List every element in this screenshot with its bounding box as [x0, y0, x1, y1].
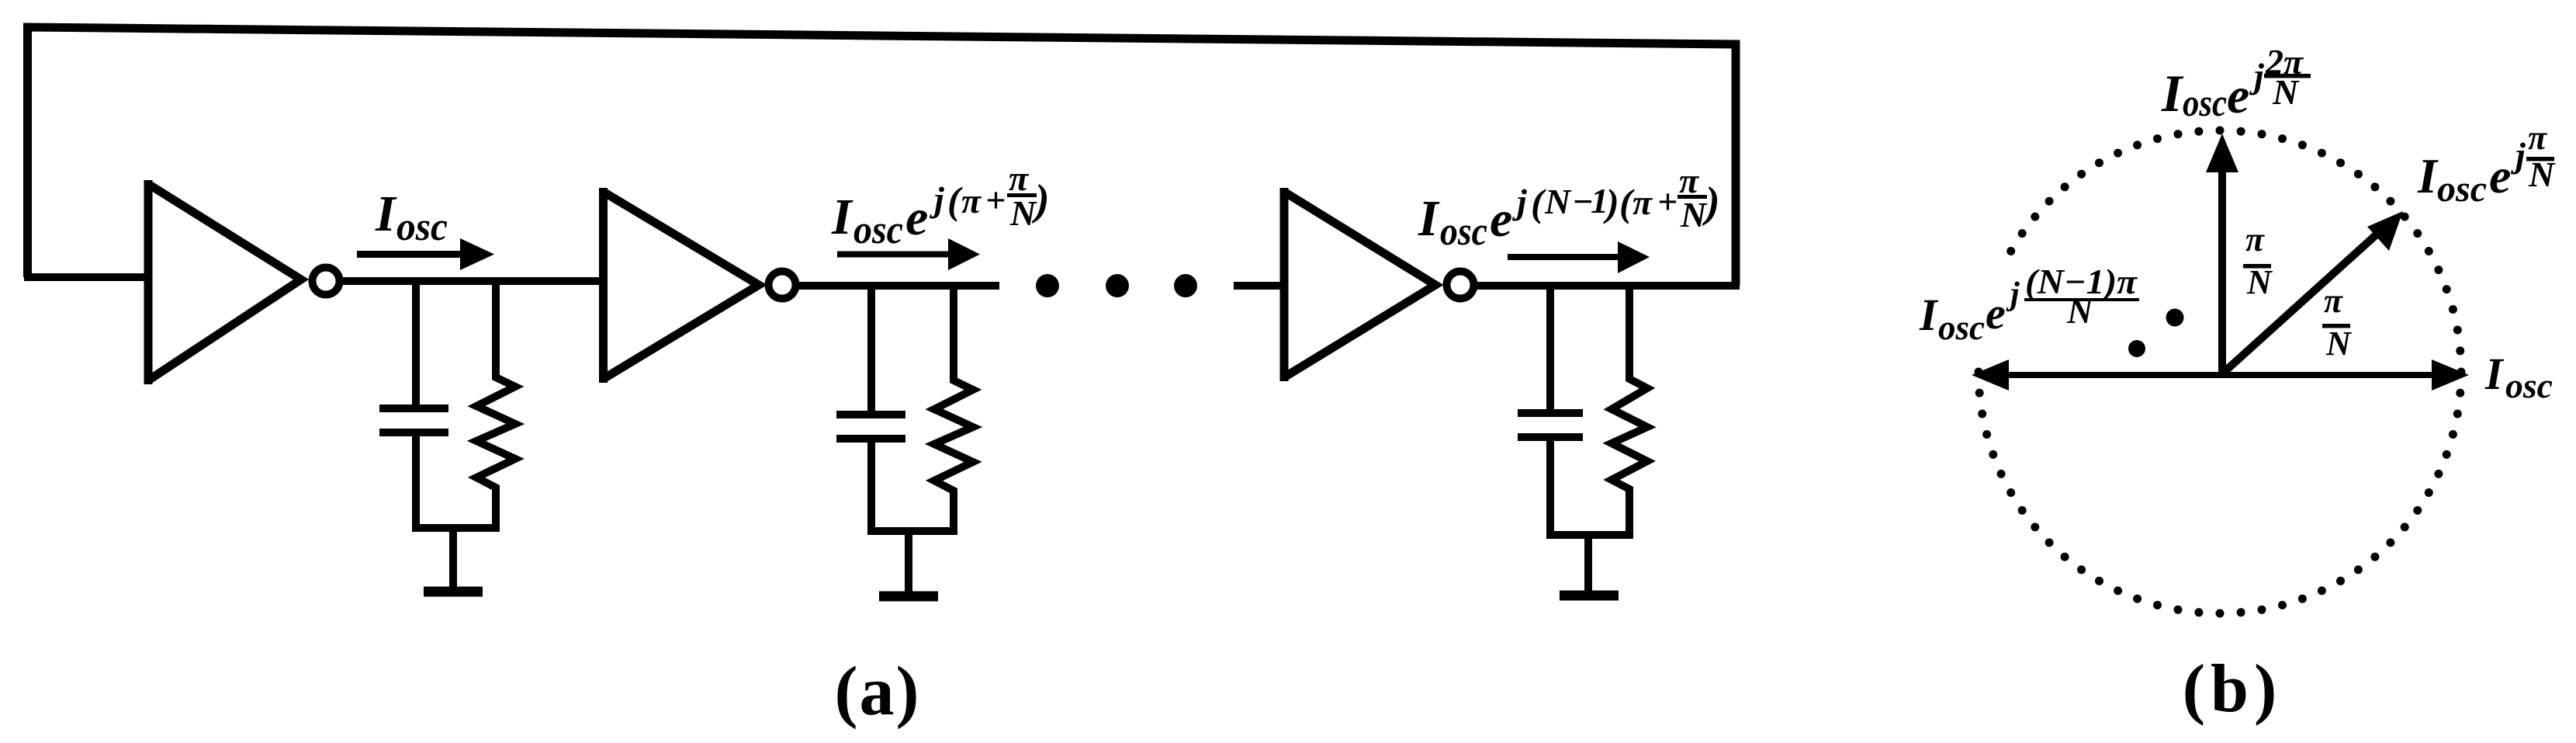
- svg-text:I: I: [2161, 64, 2184, 123]
- svg-text:N: N: [1544, 182, 1572, 221]
- svg-text:osc: osc: [853, 208, 903, 252]
- svg-text:(: (: [1531, 181, 1546, 224]
- svg-text:π: π: [1009, 158, 1030, 198]
- svg-text:osc: osc: [396, 205, 448, 249]
- svg-text:π: π: [2324, 282, 2343, 320]
- svg-text:j: j: [929, 179, 944, 219]
- svg-text:I: I: [2417, 148, 2439, 203]
- svg-text:e: e: [1490, 191, 1512, 248]
- svg-text:osc: osc: [1938, 307, 1985, 347]
- svg-text:(a): (a): [835, 653, 921, 730]
- svg-text:(b): (b): [2183, 651, 2283, 727]
- svg-text:osc: osc: [2505, 366, 2553, 405]
- svg-text:I: I: [1919, 290, 1939, 340]
- svg-text:osc: osc: [2183, 81, 2227, 124]
- svg-text:j: j: [2510, 135, 2526, 175]
- svg-text:(: (: [947, 179, 963, 222]
- svg-text:): ): [1603, 181, 1619, 224]
- svg-text:I: I: [375, 186, 397, 242]
- svg-text:e: e: [905, 189, 928, 246]
- svg-text:+: +: [985, 180, 1006, 220]
- svg-text:N: N: [2528, 155, 2556, 194]
- svg-text:osc: osc: [1440, 210, 1487, 254]
- svg-text:e: e: [1986, 288, 2006, 339]
- svg-text:π: π: [2245, 220, 2265, 259]
- svg-text:I: I: [831, 189, 853, 245]
- svg-text:π: π: [2528, 119, 2547, 157]
- svg-text:osc: osc: [2437, 168, 2487, 210]
- svg-text:π: π: [961, 181, 982, 220]
- svg-text:e: e: [2227, 68, 2249, 124]
- svg-text:N: N: [2066, 291, 2094, 331]
- svg-text:j: j: [1511, 182, 1527, 221]
- svg-text:N: N: [1009, 193, 1037, 233]
- svg-text:N: N: [1680, 195, 1708, 234]
- svg-text:N: N: [2246, 263, 2273, 301]
- svg-text:e: e: [2489, 148, 2511, 203]
- svg-text:j: j: [2249, 56, 2264, 95]
- svg-text:+: +: [1657, 182, 1678, 221]
- svg-text:N: N: [2325, 325, 2353, 363]
- svg-text:I: I: [1418, 190, 1440, 247]
- svg-text:I: I: [2484, 349, 2505, 399]
- svg-text:π: π: [1633, 182, 1653, 222]
- svg-text:N: N: [2272, 72, 2300, 112]
